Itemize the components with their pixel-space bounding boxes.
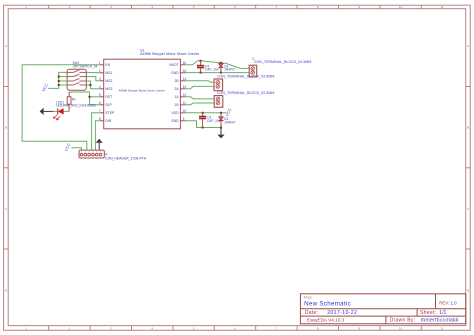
wire R1 top to RST/SLP [69, 92, 100, 105]
svg-text:MS1: MS1 [105, 71, 112, 75]
svg-text:R1: R1 [72, 97, 76, 101]
svg-text:11: 11 [440, 5, 443, 9]
svg-text:STEP: STEP [105, 111, 115, 115]
wire 1A (pin 12) [186, 97, 215, 99]
svg-text:CAP_1UF: CAP_1UF [205, 68, 220, 72]
connector H1 header 1x06 [79, 150, 147, 161]
svg-text:DIP-SWITCH_04: DIP-SWITCH_04 [73, 64, 97, 68]
svg-text:RST: RST [105, 95, 112, 99]
svg-text:DIR: DIR [105, 119, 111, 123]
connector terminal block (TB3) [214, 91, 274, 107]
op-amp U1 A4988 module body [104, 48, 200, 128]
connector terminal block C (TB1) [249, 57, 311, 77]
node RST junction [89, 96, 91, 98]
title block [300, 294, 465, 324]
svg-text:MS3: MS3 [105, 87, 112, 91]
svg-text:Drawn By:: Drawn By: [390, 317, 416, 323]
svg-text:1B: 1B [174, 103, 179, 107]
diode D1 [219, 113, 236, 128]
svg-text:CON_HEADER_1X06-PTH: CON_HEADER_1X06-PTH [105, 157, 147, 161]
wire 2B (pin 14) [186, 81, 214, 83]
svg-text:MS2: MS2 [105, 79, 112, 83]
wire GND net (pin 15) [186, 72, 250, 74]
svg-text:10: 10 [399, 5, 403, 9]
svg-text:GND: GND [171, 71, 179, 75]
U1 pin numbers [99, 61, 101, 121]
svg-text:EasyEDA V4.10.3: EasyEDA V4.10.3 [307, 317, 345, 322]
wire EN net (pin 1 long loop to header) [22, 65, 100, 150]
ground (LED, arrow left) [40, 108, 53, 115]
svg-text:VDD: VDD [171, 111, 179, 115]
wire GND net (pin 9) [186, 121, 221, 128]
capacitor C2 [199, 113, 222, 128]
node GND9 junctions [202, 127, 222, 129]
svg-text:CON_TERMINAL_BLOCK_02-5MM: CON_TERMINAL_BLOCK_02-5MM [217, 91, 275, 95]
svg-text:Date:: Date: [305, 310, 318, 316]
svg-text:A4988 Stepper Motor Driver Car: A4988 Stepper Motor Driver Carrier [119, 89, 165, 93]
wire MS1 [86, 71, 99, 73]
wire MS2 [86, 77, 99, 81]
svg-text:CON_TERMINAL_BLOCK_02-5MM: CON_TERMINAL_BLOCK_02-5MM [217, 75, 275, 79]
resistor R1 [67, 92, 76, 111]
ground (header, arrow up) [96, 139, 103, 150]
svg-text:VMOT: VMOT [169, 63, 179, 67]
capacitor C4 [197, 61, 220, 73]
LED LED1 [54, 100, 97, 119]
svg-text:1A: 1A [174, 95, 179, 99]
wire VCC rail left of SW1 [48, 72, 67, 88]
wire LED cathode to ground [53, 110, 58, 112]
node VDD junctions [202, 112, 222, 114]
wire MS3 [86, 81, 99, 89]
wire VMOT net (pin 16) [186, 61, 250, 69]
wire 1B (pin 11) [186, 103, 215, 105]
wire STEP to header [92, 113, 100, 150]
U1 pin names [105, 63, 115, 123]
ground (right, arrow down) [217, 128, 224, 139]
svg-text:EN: EN [105, 63, 110, 67]
node row4 junction [90, 84, 92, 86]
svg-text:A4988 Stepper Motor Driver Car: A4988 Stepper Motor Driver Carrier [140, 52, 200, 56]
svg-text:10: 10 [399, 327, 403, 331]
svg-text:REV: 1.0: REV: 1.0 [439, 300, 457, 305]
svg-text:2B: 2B [174, 79, 179, 83]
wire LED anode to R1 [64, 110, 70, 112]
U1 pins [100, 65, 186, 121]
svg-text:1/1: 1/1 [439, 310, 446, 316]
svg-text:A: A [5, 44, 7, 48]
svg-text:2A: 2A [174, 87, 179, 91]
svg-text:11: 11 [440, 327, 443, 331]
svg-text:CON_TERMINAL_BLOCK_02-5MM: CON_TERMINAL_BLOCK_02-5MM [254, 60, 312, 64]
wire DIR to header [95, 121, 99, 150]
node VMOT junctions [200, 60, 222, 74]
switch SW1 DIP [67, 61, 97, 90]
svg-text:SLP: SLP [105, 103, 112, 107]
svg-text:2017-10-22: 2017-10-22 [327, 310, 357, 316]
svg-text:TITLE:: TITLE: [303, 295, 312, 299]
svg-text:New Schematic: New Schematic [304, 300, 351, 307]
wire 2A (pin 13) [186, 86, 214, 88]
svg-text:1N4007: 1N4007 [224, 68, 235, 72]
node rail junctions [58, 76, 60, 86]
svg-text:B: B [467, 126, 469, 130]
svg-text:9: 9 [183, 117, 185, 121]
svg-text:B: B [5, 126, 7, 130]
wire VCC hook to header pin1 [71, 148, 81, 150]
svg-text:LED3MM_RED_DG4JD56G: LED3MM_RED_DG4JD56G [56, 104, 97, 108]
wire VDD net (pin 10) [186, 112, 227, 114]
diode D2 [219, 63, 236, 73]
svg-text:A: A [467, 44, 469, 48]
connector terminal block (TB2) [214, 75, 274, 91]
svg-text:mmertticcolakk: mmertticcolakk [421, 317, 459, 323]
svg-text:1N4007: 1N4007 [224, 120, 235, 124]
wire SW1 row4 stub [86, 84, 90, 86]
svg-text:Sheet:: Sheet: [420, 310, 436, 316]
svg-text:GND: GND [171, 119, 179, 123]
